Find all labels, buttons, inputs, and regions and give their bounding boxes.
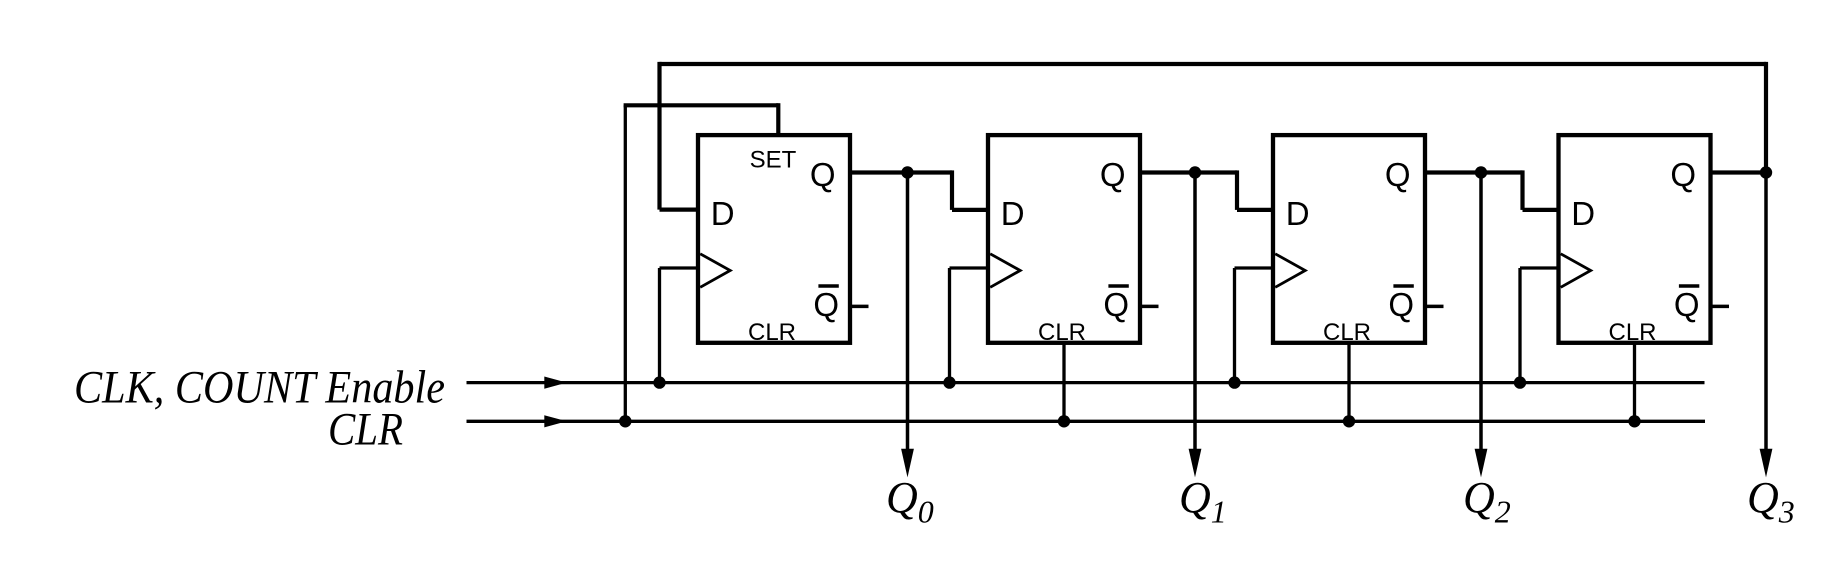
U3 Qbar stub (1425, 305, 1444, 309)
flip-flop U3 box (1273, 135, 1425, 343)
U2 clock triangle (990, 254, 1020, 287)
svg-text:D: D (1001, 195, 1025, 232)
U1 Qbar stub (850, 305, 869, 309)
arrowhead on CLK bus (544, 377, 566, 389)
wire: feedback net Q3 to D of U1, top horizontal (660, 62, 1767, 66)
arrowhead Q3 output (1760, 449, 1773, 478)
node CLK junction U1 (653, 376, 665, 388)
node CLR junction U4 (1628, 415, 1640, 427)
U1 clock triangle (700, 254, 730, 287)
wire: D input of U4 horizontal (1523, 208, 1559, 212)
svg-text:Q: Q (1103, 286, 1129, 323)
wire: Q3 net, U4 Q output horizontal (1711, 170, 1767, 174)
U4 Qbar stub (1711, 305, 1730, 309)
wire: SET route horizontal at y=104.4 (624, 103, 779, 107)
node Q3 junction dot (1760, 166, 1772, 178)
wire: CLR bus riser to SET route, vertical at x=625.3 (624, 105, 627, 421)
wire: feedback vertical right, Q3 node up to top wire (1764, 62, 1768, 172)
U3 clock riser to CLK bus (1233, 268, 1236, 383)
wire: Q0 net, U1 Q output horizontal (850, 170, 952, 174)
svg-text:CLR: CLR (1038, 319, 1086, 346)
U1 clock wire (660, 266, 699, 269)
svg-text:Q: Q (813, 286, 839, 323)
U3 clock wire (1235, 266, 1274, 269)
svg-text:CLR: CLR (1323, 319, 1371, 346)
U4 clock triangle (1561, 254, 1591, 287)
arrowhead Q2 output (1475, 449, 1488, 478)
U3 CLR pin riser to CLR bus (1347, 343, 1350, 422)
flip-flop U2 box (988, 135, 1140, 343)
node Q2 junction dot (1475, 166, 1487, 178)
node CLR junction U3 (1343, 415, 1355, 427)
U3 clock triangle (1275, 254, 1305, 287)
svg-text:Q: Q (1674, 286, 1700, 323)
wire: Q3 output drop (1764, 173, 1768, 453)
arrowhead Q1 output (1189, 449, 1202, 478)
wire: Q1 net, U2 Q output horizontal (1140, 170, 1237, 174)
U4 CLR pin riser to CLR bus (1633, 343, 1636, 422)
node CLR junction U2 (1058, 415, 1070, 427)
U4 Qbar overbar (1679, 284, 1699, 288)
svg-text:Q: Q (810, 156, 836, 193)
U2 clock riser to CLK bus (948, 268, 951, 383)
U2 CLR pin riser to CLR bus (1062, 343, 1065, 422)
node CLK junction U4 (1514, 376, 1526, 388)
wire: D input of U1 horizontal (660, 208, 699, 212)
CLR bus line (467, 420, 1706, 423)
svg-text:Q: Q (1100, 156, 1126, 193)
CLK bus line (467, 381, 1705, 384)
wire: Q1 jog down to D row (1235, 170, 1239, 210)
arrowhead on CLR bus (544, 415, 566, 427)
U1 clock riser to CLK bus (658, 268, 661, 383)
wire: Q0 output drop (906, 173, 910, 453)
U4 clock riser to CLK bus (1518, 268, 1521, 383)
svg-text:Q: Q (1670, 156, 1696, 193)
node Q0 junction dot (901, 166, 913, 178)
wire: D input of U2 horizontal (952, 208, 988, 212)
svg-text:CLR: CLR (328, 404, 403, 456)
node CLK junction U2 (943, 376, 955, 388)
flip-flop U1 box (698, 135, 850, 343)
U2 Qbar overbar (1108, 284, 1128, 288)
wire: Q0 jog down to D row (950, 170, 954, 210)
U4 clock wire (1520, 266, 1559, 269)
arrowhead Q0 output (901, 449, 914, 478)
node Q1 junction dot (1189, 166, 1201, 178)
node CLK junction U3 (1228, 376, 1240, 388)
wire: Q2 output drop (1479, 173, 1483, 453)
wire: feedback vertical left, down to D row of U1 (657, 62, 661, 210)
svg-text:Q: Q (1385, 156, 1411, 193)
wire: Q2 jog down to D row (1520, 170, 1524, 210)
U1 Qbar overbar (818, 284, 838, 288)
U2 Qbar stub (1140, 305, 1159, 309)
node CLR junction U1 SET route (619, 415, 631, 427)
svg-text:SET: SET (750, 147, 797, 174)
U3 Qbar overbar (1393, 284, 1413, 288)
svg-text:D: D (1286, 195, 1310, 232)
svg-text:CLR: CLR (748, 319, 796, 346)
wire: D input of U3 horizontal (1237, 208, 1273, 212)
flip-flop U4 box (1559, 135, 1711, 343)
wire: SET pin drop into top of U1 (776, 103, 780, 135)
svg-text:Q: Q (1388, 286, 1414, 323)
svg-text:D: D (711, 195, 735, 232)
svg-text:D: D (1571, 195, 1595, 232)
svg-text:CLR: CLR (1608, 319, 1656, 346)
U2 clock wire (950, 266, 989, 269)
wire: Q1 output drop (1193, 173, 1197, 453)
wire: Q2 net, U3 Q output horizontal (1425, 170, 1523, 174)
